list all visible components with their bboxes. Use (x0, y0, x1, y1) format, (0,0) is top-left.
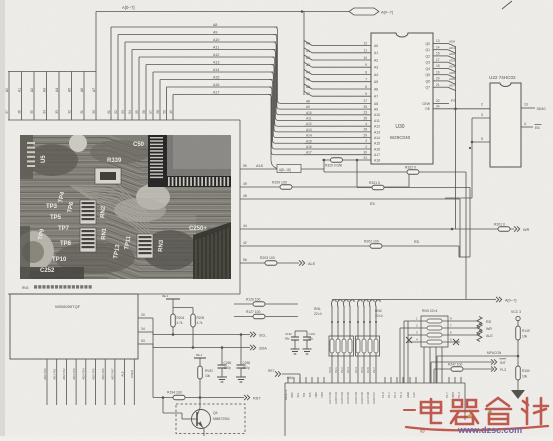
wire A10 left drop to CPU (124, 42, 126, 120)
IC bottom MCU left edge (284, 383, 286, 436)
pin tick bottom IC 12 (415, 377, 417, 383)
wire U30 pin A4 (312, 74, 371, 76)
wire RN line 1 (337, 306, 339, 383)
wire RN3 right pin 6 (442, 334, 460, 336)
wire U30 pin A12 (304, 125, 371, 127)
net ALE squiggle (460, 334, 478, 336)
wire MCU bottom pin 9 (133, 359, 135, 405)
wire left header horizontal (8, 71, 96, 73)
wire riser x460 (459, 199, 461, 257)
wire U30 pin A13 (304, 131, 371, 133)
wire RN line 6 (369, 306, 371, 383)
wire U30 pin A7 (312, 95, 371, 97)
node junction RN line 4 (357, 321, 359, 323)
wire A9 horizontal run (118, 34, 277, 36)
wire A10 horizontal run (125, 41, 276, 43)
node junction R320 right (356, 159, 359, 162)
node junction RN line 2 (343, 321, 345, 323)
bus tap AD3 (448, 62, 456, 65)
bus tap A3 at U30 (304, 62, 312, 67)
wire U30 pin Q6 (433, 80, 448, 82)
node junction R320 left (323, 159, 326, 162)
resistor R321 0 (372, 185, 384, 190)
wire R126 row (234, 303, 298, 305)
net RD squiggle (460, 320, 478, 322)
dashed box around Q4 (176, 404, 245, 434)
net stub SDA (250, 345, 253, 350)
resistor R203 100 (265, 261, 277, 266)
node junction RN line 6 (369, 321, 371, 323)
wire A17 horizontal run (173, 94, 271, 96)
wire MCU bottom pin 6 (104, 359, 106, 405)
wire U30 pin Q7 (433, 86, 448, 88)
wire U30 pin A11 (304, 120, 371, 122)
pin tick bottom IC 0 (287, 377, 289, 383)
wire RN line 3 (349, 306, 351, 383)
wire MCU pin 34 (138, 331, 153, 333)
node junction OE net (454, 108, 457, 111)
net stub FL2 (491, 366, 494, 371)
bus tag A[0-7] top right (349, 8, 379, 15)
bus tap P5 lower (364, 300, 369, 307)
wire riser x470 (469, 188, 471, 258)
pin tick bottom IC 15 (460, 377, 462, 383)
bus tap P0 lower (332, 300, 337, 307)
node junction RN line 5 (363, 321, 365, 323)
wire A7 vertical to CPU (95, 72, 97, 121)
pin 42 CPU row / net RD (240, 245, 459, 247)
power tap for RV92 (194, 357, 206, 359)
node junction RST-RV92 (199, 396, 202, 399)
resistor R201 0 (498, 227, 510, 232)
wire A[0-7] lower bus (332, 299, 496, 301)
wire MPUCON row (437, 355, 518, 357)
wire A3 vertical to CPU (46, 72, 48, 121)
pin tick bottom IC 6 (323, 377, 325, 383)
wire U30 pin Q3 (433, 61, 448, 63)
wire pin20 drop to RST row (152, 318, 154, 398)
wire U22 pin 3 (472, 117, 490, 119)
wire R320 right drop (356, 160, 358, 188)
resistor network RN2 body (356, 336, 380, 356)
wire A15 bundle drop to U30 (270, 80, 304, 144)
IC U30 W29C040 body (371, 33, 433, 164)
bus tap A6 at U30 (304, 84, 312, 89)
wire MCU bottom pin 8 (124, 359, 126, 405)
wire base feed (162, 398, 164, 414)
bus tap AD4 (448, 68, 456, 71)
node junction MPUCON (517, 355, 520, 358)
resistor RN3 element 4 (427, 340, 442, 344)
net stub SCL (250, 332, 253, 337)
wire A8 left drop to CPU (110, 27, 112, 120)
resistor R149 10k (516, 326, 521, 340)
wire U22 input riser (471, 118, 473, 198)
wire A2 vertical to CPU (33, 72, 35, 121)
wire R321 row (357, 187, 470, 189)
bus tap AD2 (448, 56, 456, 59)
node junction WR row (451, 228, 454, 231)
pin tick bottom IC 8 (390, 377, 392, 383)
wire U30 pin A3 (312, 66, 371, 68)
bus tap P4 lower (358, 300, 363, 307)
net stub RST to U5A (275, 371, 278, 376)
wire MCU bottom pin 1 (56, 359, 58, 405)
IC U22 74HC02 body (490, 83, 521, 167)
bus tap A0 at U30 (304, 41, 312, 46)
wire U30 pin Q5 (433, 74, 448, 76)
resistor RN3 element 2 (427, 326, 442, 330)
wire A11 horizontal run (132, 49, 275, 51)
no-connect X right (453, 339, 459, 345)
wire RN line 2 (343, 306, 345, 383)
wire U30 pin A10 (304, 114, 371, 116)
pin tick bottom IC 3 (305, 377, 307, 383)
wire A16 left drop to CPU (166, 87, 168, 120)
IC W006095TQF body (10, 294, 138, 359)
resistor R200 100 (280, 185, 292, 190)
node junction RN line 1 (337, 321, 339, 323)
pin tick bottom IC 10 (402, 377, 404, 383)
wire A4 vertical to CPU (58, 72, 60, 121)
net stub A[0-7] lower (496, 297, 499, 302)
net stub INT (491, 359, 494, 364)
wire A8 bundle drop to U30 (275, 27, 305, 103)
wire RN3 left pin 1 (408, 320, 427, 322)
wire MCU bottom pin 0 (46, 359, 48, 405)
wire U30 pin A16 (304, 148, 371, 150)
wire riser x466 (465, 172, 467, 299)
pin 59 CPU / net A18 row (240, 168, 324, 170)
resistor R247 100 (451, 367, 463, 372)
wire A13 horizontal run (146, 64, 274, 66)
pin 48 CPU row / net E5 (240, 198, 460, 200)
node junction RN line 0 (331, 321, 333, 323)
bus vertical AD at U30 / OE net (455, 46, 457, 229)
bus tap AD7 (448, 87, 456, 90)
bus tap P1 lower (338, 300, 343, 307)
wire U30 pin A0 (312, 45, 371, 47)
wire cap tops link (295, 330, 307, 332)
watermark red logo (decor) (404, 398, 548, 430)
resistor R320 0 DNI (331, 158, 343, 163)
wire riser INT (430, 362, 432, 383)
wire A16 bundle drop to U30 (269, 87, 304, 149)
pin 44 CPU row / net WR (240, 228, 514, 230)
bus tap AD1 (448, 50, 456, 53)
bus tap A5 at U30 (304, 77, 312, 82)
wire RN3 left pin 2 (408, 327, 427, 329)
ground for R150 (511, 390, 525, 399)
net stub RST (244, 395, 247, 400)
node junction x470 (469, 147, 471, 149)
wire MCU bottom pin 3 (75, 359, 77, 405)
wire A14 left drop to CPU (152, 72, 154, 120)
wire U30 pin Q4 (433, 67, 448, 69)
wire pin53 to SDA row (152, 344, 154, 348)
IC CPU right edge (239, 120, 241, 294)
wire RN3 right pin 7 (442, 327, 460, 329)
wire pullup tops (173, 307, 193, 309)
bus tap A4 at U30 (304, 70, 312, 75)
wire MCU pin 53 (138, 343, 153, 345)
wire A17 left drop to CPU (172, 95, 174, 121)
wire A12 bundle drop to U30 (272, 57, 304, 126)
IC CPU bottom edge (8, 293, 240, 295)
node junction U22 pin5 (471, 141, 474, 144)
pin tick bottom IC 14 (454, 377, 456, 383)
wire A[8-18] bundle tail to tag (271, 98, 277, 169)
IC bottom MCU top edge (285, 382, 465, 384)
wire U30 pin OE (433, 108, 490, 110)
pin tick bottom IC 7 (384, 377, 386, 383)
wire A14 horizontal run (153, 71, 273, 73)
resistor R150 10k (517, 356, 519, 366)
wire A16 horizontal run (167, 86, 272, 88)
wire R127 row (234, 316, 298, 318)
wire RN line 4 (357, 306, 359, 383)
capacitor C266 100p (240, 335, 242, 366)
node junction RN line 7 (375, 321, 377, 323)
bus tap P3 lower (350, 300, 355, 307)
transistor Q4 MMBT2904 (192, 410, 211, 429)
bus tap AD6 (448, 81, 456, 84)
no-connect X left (406, 337, 412, 343)
wire U30 pin A8 (304, 102, 371, 104)
wire A0 vertical to CPU (8, 72, 10, 121)
resistor RN3 element 3 (427, 333, 442, 337)
wire A8 horizontal run (111, 26, 278, 28)
wire U22 pin 5 (472, 141, 490, 143)
net stub ALE (299, 260, 302, 265)
pin tick bottom IC 2 (299, 377, 301, 383)
bus tap A7 at U30 (304, 91, 312, 96)
pin tick bottom IC 9 (396, 377, 398, 383)
wire RN3 left pin 4 (408, 341, 427, 343)
wire U22 gate input feed (445, 197, 472, 199)
capacitor C265 100p (221, 348, 223, 366)
wire RN3 left feeds (407, 321, 409, 383)
pin tick bottom IC 5 (317, 377, 319, 383)
wire riser R200 line to R322 line (408, 172, 410, 187)
bus tap AD0 (448, 43, 456, 46)
wire MCU bottom pin 4 (85, 359, 87, 405)
wire U30 pin A15 (304, 142, 371, 144)
bus tap P2 lower (344, 300, 349, 307)
wire RN line 7 (375, 306, 377, 383)
wire A[0-7] top bus line (96, 11, 352, 13)
wire FL2 row (434, 368, 492, 370)
wire A1 vertical to CPU (21, 72, 23, 121)
wire RN line 5 (363, 306, 365, 383)
wire U30 pin CEW (433, 102, 449, 104)
wire A12 horizontal run (139, 56, 275, 58)
pin 49 CPU row / R200 net (240, 186, 409, 188)
wire U30 pin A6 (312, 88, 371, 90)
wire A17 bundle drop to U30 (268, 95, 304, 155)
wire pin34 to SCL row (152, 332, 154, 335)
IC bottom MCU right edge (464, 383, 466, 420)
resistor R127 100 (253, 314, 265, 319)
bus tap A2 at U30 (304, 55, 312, 60)
wire A14 bundle drop to U30 (270, 72, 304, 138)
wire A5 vertical to CPU (71, 72, 73, 121)
wire A9 bundle drop to U30 (274, 35, 304, 110)
wire riser MPUCON (436, 356, 438, 383)
wire A15 horizontal run (160, 79, 273, 81)
wire U30 pin A18 (322, 159, 371, 161)
wire A10 bundle drop to U30 (273, 42, 304, 115)
wire U22 pin 4 output (521, 126, 533, 128)
wire U30 pin A17 (304, 154, 371, 156)
wire A12 left drop to CPU (138, 57, 140, 120)
resistor RV92 10k (198, 366, 203, 379)
resistor network RN1 body (329, 336, 354, 356)
wire RD row tail (458, 246, 460, 257)
scan artifact diagonal top right (502, 1, 512, 9)
wire riser FL2 (433, 369, 435, 383)
wire MCU pin 20 (138, 317, 153, 319)
wire U30 pin A2 (312, 59, 371, 61)
wire U30 pin A5 (312, 81, 371, 83)
wire U30 pin Q2 (433, 55, 448, 57)
resistor R194 100 (173, 395, 185, 400)
wire A[0-7] bus drop (95, 12, 97, 72)
wire U30 pin Q1 (433, 49, 448, 51)
wire A13 left drop to CPU (145, 65, 147, 121)
pin tick bottom IC 1 (293, 377, 295, 383)
wire RN3 left pin 3 (408, 334, 427, 336)
wire RN3 right pin 5 (442, 341, 460, 343)
wire RN3 bottom feeds (423, 347, 425, 383)
wire RN line 0 (331, 306, 333, 383)
resistor RN3 element 1 (427, 319, 442, 323)
bus vertical A[0-7] at U30 (303, 12, 305, 96)
wire MCU bottom pin 7 (114, 359, 116, 405)
wire MCU bottom pin 5 (95, 359, 97, 405)
bus tap P7 lower (376, 300, 381, 307)
bus tap P6 lower (370, 300, 375, 307)
wire MCU bottom pin 2 (65, 359, 67, 405)
wire U30 pin Q0 (433, 42, 448, 44)
wire U30 pin A1 (312, 52, 371, 54)
power tap VCC for pullups (166, 298, 180, 300)
pin tick bottom IC 13 (448, 377, 450, 383)
wire A13 bundle drop to U30 (271, 65, 304, 132)
resistor R126 100 (253, 302, 265, 307)
wire INT row (431, 361, 492, 363)
bus tap A1 at U30 (304, 48, 312, 53)
wire U30 pin A14 (304, 137, 371, 139)
resistor R202 100 (370, 244, 382, 249)
net stub WR (514, 226, 517, 231)
resistor R205 4.7k (192, 308, 194, 315)
resistor network RN3 body (421, 316, 448, 347)
wire R322 row (324, 171, 466, 173)
resistor R204 4.7k (172, 308, 174, 315)
wire A6 vertical to CPU (83, 72, 85, 121)
capacitor C191 68p (306, 331, 308, 337)
wire RN3 right pin 8 (442, 320, 460, 322)
wire A9 left drop to CPU (117, 35, 119, 121)
pin tick bottom IC 4 (311, 377, 313, 383)
wire A15 left drop to CPU (159, 80, 161, 121)
wire RST row (153, 397, 244, 399)
net WR squiggle (460, 327, 478, 329)
wire A11 left drop to CPU (131, 50, 133, 121)
node junction on A[0-7] bus (301, 10, 304, 13)
wire A11 bundle drop to U30 (272, 50, 304, 121)
node junction RST-left (162, 396, 165, 399)
node junction RN line 3 (349, 321, 351, 323)
bus tag A[8-18] (277, 165, 301, 173)
capacitor C192 68p (294, 331, 296, 337)
pin tick bottom IC 11 (409, 377, 411, 383)
IC CPU hidden top edge (8, 119, 240, 121)
pin 56 CPU row / net ALE (240, 262, 299, 264)
wire A18 row to R320 (323, 160, 325, 172)
wire U22 pin 13 output (521, 107, 535, 109)
bus tap AD5 (448, 75, 456, 78)
wire U30 pin A9 (304, 108, 371, 110)
resistor R322 0 (407, 170, 419, 175)
